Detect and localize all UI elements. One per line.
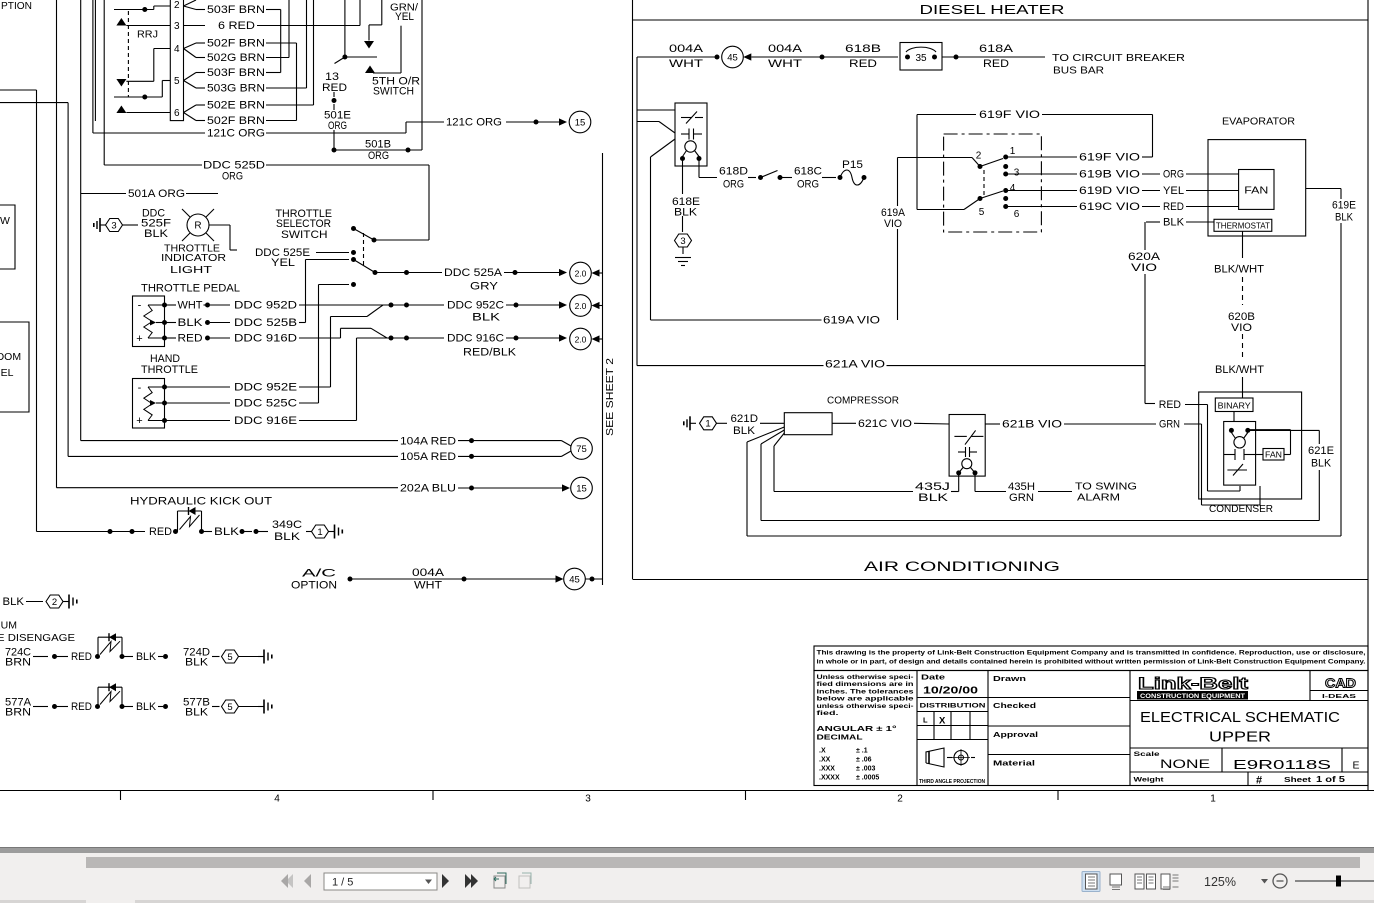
svg-text:3: 3 [680, 236, 685, 247]
svg-text:6 RED: 6 RED [218, 20, 255, 32]
svg-text:621E: 621E [1308, 445, 1334, 457]
svg-text:WHT: WHT [178, 300, 203, 312]
svg-text:BLK: BLK [674, 207, 698, 219]
svg-text:501B: 501B [365, 139, 391, 151]
svg-text:Drawn: Drawn [993, 674, 1027, 683]
svg-text:WHT: WHT [669, 58, 703, 70]
svg-text:6: 6 [174, 108, 180, 119]
svg-text:BLK: BLK [185, 657, 209, 669]
svg-text:THROTTLE: THROTTLE [141, 364, 198, 376]
svg-text:BLK/WHT: BLK/WHT [1214, 264, 1264, 276]
svg-text:UEL: UEL [0, 367, 14, 379]
svg-text:.XXX: .XXX [819, 766, 835, 773]
svg-text:Unless otherwise speci-: Unless otherwise speci- [817, 674, 914, 681]
svg-text:E9R0118S: E9R0118S [1233, 757, 1332, 772]
svg-text:E DISENGAGE: E DISENGAGE [0, 632, 75, 644]
svg-text:R: R [194, 221, 201, 232]
svg-text:2.0: 2.0 [575, 268, 587, 278]
svg-text:Link-Belt: Link-Belt [1138, 674, 1248, 693]
svg-text:DDC 916C: DDC 916C [447, 333, 504, 345]
svg-text:VIO: VIO [884, 218, 902, 230]
svg-text:DDC 952E: DDC 952E [234, 382, 297, 394]
svg-text:BRN: BRN [5, 657, 31, 669]
svg-text:THIRD ANGLE PROJECTION: THIRD ANGLE PROJECTION [919, 779, 985, 785]
svg-text:618C: 618C [794, 166, 822, 178]
svg-text:1 of 5: 1 of 5 [1316, 775, 1346, 784]
svg-text:E: E [1352, 760, 1359, 772]
svg-text:5: 5 [174, 76, 180, 87]
svg-text:DDC 916D: DDC 916D [234, 333, 297, 345]
svg-text:HYDRAULIC KICK OUT: HYDRAULIC KICK OUT [130, 496, 272, 508]
svg-text:503G BRN: 503G BRN [207, 83, 265, 95]
svg-text:502F BRN: 502F BRN [207, 38, 265, 50]
svg-text:-: - [138, 300, 142, 312]
svg-text:621B VIO: 621B VIO [1002, 419, 1063, 431]
svg-text:004A: 004A [768, 43, 803, 55]
svg-text:SWITCH: SWITCH [281, 229, 328, 241]
svg-text:1: 1 [1210, 794, 1216, 805]
svg-text:ANGULAR ± 1°: ANGULAR ± 1° [817, 725, 897, 733]
svg-text:BLK: BLK [1163, 217, 1185, 229]
svg-text:Weight: Weight [1134, 777, 1165, 784]
svg-text:618D: 618D [719, 166, 748, 178]
svg-text:CONSTRUCTION EQUIPMENT: CONSTRUCTION EQUIPMENT [1140, 694, 1245, 700]
svg-text:621C VIO: 621C VIO [858, 418, 912, 430]
svg-text:BLK: BLK [1311, 458, 1332, 470]
svg-text:RED: RED [71, 651, 92, 663]
svg-text:618A: 618A [979, 43, 1014, 55]
svg-text:618B: 618B [845, 43, 881, 55]
svg-text:104A RED: 104A RED [400, 435, 456, 447]
svg-text:VIO: VIO [1231, 322, 1252, 334]
svg-text:RED: RED [983, 58, 1009, 70]
svg-text:202A BLU: 202A BLU [400, 483, 456, 495]
svg-text:RED: RED [849, 58, 877, 70]
svg-text:in whole or in part, of design: in whole or in part, of design and detai… [817, 659, 1366, 666]
svg-text:BLK: BLK [178, 317, 204, 329]
svg-text:004A: 004A [669, 43, 704, 55]
svg-text:619F VIO: 619F VIO [1079, 152, 1141, 164]
svg-text:RED: RED [1163, 201, 1184, 213]
svg-text:#: # [1256, 775, 1262, 787]
svg-text:DDC 525C: DDC 525C [234, 398, 297, 410]
svg-text:619C VIO: 619C VIO [1079, 201, 1141, 213]
svg-text:± .06: ± .06 [856, 757, 872, 764]
svg-text:OOM: OOM [0, 351, 21, 363]
svg-text:4: 4 [274, 794, 280, 805]
svg-text:121C ORG: 121C ORG [207, 128, 265, 140]
svg-text:621A VIO: 621A VIO [825, 359, 886, 371]
svg-text:CAD: CAD [1325, 676, 1356, 691]
svg-text:THROTTLE PEDAL: THROTTLE PEDAL [141, 283, 240, 295]
svg-text:BLK: BLK [918, 492, 949, 504]
svg-text:.X: .X [819, 748, 826, 755]
svg-text:15: 15 [575, 117, 586, 128]
svg-text:4: 4 [174, 44, 180, 55]
svg-text:fied dimensions are in: fied dimensions are in [817, 681, 914, 688]
svg-text:Material: Material [993, 759, 1035, 768]
svg-text:619E: 619E [1332, 200, 1356, 212]
svg-text:BRN: BRN [5, 707, 31, 719]
svg-text:619F VIO: 619F VIO [979, 109, 1041, 121]
svg-text:RED: RED [178, 333, 203, 345]
svg-text:ELECTRICAL SCHEMATIC: ELECTRICAL SCHEMATIC [1140, 709, 1340, 726]
svg-text:2: 2 [976, 151, 982, 162]
svg-text:-: - [138, 382, 142, 394]
svg-text:ORG: ORG [723, 179, 744, 191]
svg-text:INDICATOR: INDICATOR [161, 253, 226, 264]
svg-text:DDC 525A: DDC 525A [444, 267, 503, 279]
svg-text:5: 5 [227, 702, 232, 713]
svg-text:+: + [136, 333, 142, 345]
svg-text:± .1: ± .1 [856, 748, 868, 755]
svg-text:WHT: WHT [414, 580, 442, 592]
svg-text:BLK: BLK [144, 228, 169, 240]
svg-text:503F BRN: 503F BRN [207, 4, 265, 16]
svg-text:GRY: GRY [470, 281, 499, 293]
svg-text:349C: 349C [272, 519, 302, 531]
svg-text:RED: RED [1159, 399, 1181, 411]
svg-text:125%: 125% [1204, 875, 1236, 889]
svg-text:BLK: BLK [214, 526, 240, 538]
svg-text:LIGHT: LIGHT [170, 265, 212, 276]
svg-text:COMPRESSOR: COMPRESSOR [827, 396, 899, 407]
svg-text:GRN: GRN [1159, 419, 1180, 431]
svg-text:RED/BLK: RED/BLK [463, 347, 517, 359]
svg-text:A/C: A/C [302, 568, 336, 580]
svg-text:BLK: BLK [274, 531, 301, 543]
svg-text:619D VIO: 619D VIO [1079, 185, 1141, 197]
svg-text:75: 75 [576, 444, 587, 455]
svg-text:UPPER: UPPER [1209, 729, 1271, 746]
svg-text:619A VIO: 619A VIO [823, 315, 881, 327]
svg-text:P15: P15 [842, 159, 863, 171]
svg-text:GRN: GRN [1009, 492, 1034, 504]
svg-text:SEE SHEET 2: SEE SHEET 2 [604, 358, 616, 436]
svg-text:3: 3 [585, 794, 591, 805]
svg-text:DDC 952D: DDC 952D [234, 300, 297, 312]
svg-text:6: 6 [1014, 209, 1020, 220]
svg-text:YEL: YEL [395, 11, 414, 23]
svg-text:5: 5 [979, 207, 985, 218]
svg-text:THERMOSTAT: THERMOSTAT [1216, 222, 1270, 231]
svg-text:± .0005: ± .0005 [856, 775, 879, 782]
svg-text:RED: RED [71, 701, 92, 713]
svg-text:BLK: BLK [136, 651, 157, 663]
svg-text:1: 1 [705, 419, 710, 430]
svg-text:502G BRN: 502G BRN [207, 52, 265, 64]
svg-text:BLK: BLK [1335, 212, 1354, 224]
svg-text:.XX: .XX [819, 757, 831, 764]
svg-text:unless otherwise speci-: unless otherwise speci- [817, 703, 914, 710]
svg-text:BLK/WHT: BLK/WHT [1215, 364, 1264, 376]
svg-text:Date: Date [921, 673, 945, 682]
svg-text:BLK: BLK [3, 596, 25, 608]
svg-text:BLK: BLK [136, 701, 157, 713]
svg-text:10/20/00: 10/20/00 [923, 686, 979, 697]
svg-text:CONDENSER: CONDENSER [1209, 503, 1273, 515]
svg-text:FAN: FAN [1244, 186, 1268, 197]
svg-text:ORG: ORG [797, 179, 819, 191]
svg-text:YEL: YEL [271, 257, 295, 269]
svg-text:Checked: Checked [993, 701, 1037, 710]
svg-text:1: 1 [1010, 146, 1016, 157]
svg-text:ORG: ORG [328, 120, 347, 132]
svg-text:OPTION: OPTION [291, 580, 337, 592]
svg-text:DDC 525B: DDC 525B [234, 317, 297, 329]
svg-text:Sheet: Sheet [1284, 775, 1312, 784]
svg-text:45: 45 [569, 574, 580, 585]
svg-text:ALARM: ALARM [1077, 492, 1120, 504]
svg-text:3: 3 [174, 21, 180, 32]
svg-text:fied.: fied. [817, 710, 839, 717]
svg-text:2: 2 [52, 597, 57, 608]
svg-text:621D: 621D [731, 413, 759, 425]
svg-text:3: 3 [1014, 168, 1020, 179]
svg-text:This drawing is the property o: This drawing is the property of Link-Bel… [817, 650, 1366, 657]
svg-text:105A RED: 105A RED [400, 451, 456, 463]
svg-text:+: + [136, 415, 142, 427]
svg-text:L: L [923, 716, 928, 725]
svg-text:DECIMAL: DECIMAL [817, 735, 864, 742]
svg-text:X: X [939, 716, 946, 727]
svg-text:502F BRN: 502F BRN [207, 115, 265, 127]
svg-text:inches. The tolerances: inches. The tolerances [817, 688, 915, 695]
svg-text:DRUM: DRUM [0, 620, 17, 632]
svg-text:RRJ: RRJ [137, 30, 158, 41]
svg-text:W: W [0, 215, 10, 227]
svg-text:2: 2 [174, 0, 180, 11]
svg-text:619B VIO: 619B VIO [1079, 169, 1141, 181]
svg-text:1: 1 [317, 527, 322, 538]
svg-text:± .003: ± .003 [856, 766, 876, 773]
svg-text:004A: 004A [412, 567, 445, 579]
svg-text:4: 4 [1010, 183, 1016, 194]
svg-text:Scale: Scale [1134, 751, 1161, 758]
svg-text:ORG: ORG [222, 171, 243, 183]
svg-text:BINARY: BINARY [1218, 402, 1252, 411]
svg-text:ORG: ORG [1163, 169, 1184, 181]
svg-text:DISTRIBUTION: DISTRIBUTION [920, 703, 986, 710]
svg-text:FAN: FAN [1265, 450, 1282, 459]
svg-text:YEL: YEL [1163, 185, 1184, 197]
svg-text:BUS BAR: BUS BAR [1053, 65, 1104, 77]
svg-text:DIESEL HEATER: DIESEL HEATER [920, 2, 1065, 17]
svg-text:502E BRN: 502E BRN [207, 100, 265, 112]
svg-text:EVAPORATOR: EVAPORATOR [1222, 116, 1295, 128]
svg-text:2.0: 2.0 [575, 301, 587, 311]
svg-text:PTION: PTION [1, 0, 32, 12]
svg-text:15: 15 [576, 483, 587, 494]
svg-text:DDC 952C: DDC 952C [447, 300, 504, 312]
svg-text:NONE: NONE [1160, 759, 1210, 771]
svg-text:BLK: BLK [733, 425, 756, 437]
svg-text:RED: RED [149, 526, 172, 538]
svg-text:BLK: BLK [472, 312, 501, 324]
svg-text:DDC 916E: DDC 916E [234, 415, 297, 427]
svg-text:35: 35 [915, 53, 927, 64]
svg-text:SWITCH: SWITCH [373, 86, 414, 98]
svg-text:5: 5 [227, 652, 232, 663]
svg-text:WHT: WHT [768, 58, 802, 70]
svg-text:AIR CONDITIONING: AIR CONDITIONING [864, 559, 1060, 574]
svg-text:BLK: BLK [185, 707, 209, 719]
svg-text:45: 45 [727, 52, 738, 63]
svg-text:503F BRN: 503F BRN [207, 67, 265, 79]
svg-text:2: 2 [897, 794, 903, 805]
svg-text:Approval: Approval [993, 730, 1038, 739]
svg-text:VIO: VIO [1131, 262, 1158, 274]
svg-text:121C ORG: 121C ORG [446, 117, 502, 129]
svg-text:ORG: ORG [368, 150, 389, 162]
svg-text:.XXXX: .XXXX [819, 775, 840, 782]
svg-text:2.0: 2.0 [575, 334, 587, 344]
svg-text:3: 3 [111, 220, 116, 231]
svg-text:501A ORG: 501A ORG [128, 188, 185, 200]
svg-text:I-DEAS: I-DEAS [1322, 694, 1357, 700]
svg-text:1 / 5: 1 / 5 [332, 877, 353, 889]
svg-text:TO CIRCUIT BREAKER: TO CIRCUIT BREAKER [1052, 52, 1185, 64]
svg-text:below are applicable: below are applicable [817, 696, 915, 703]
